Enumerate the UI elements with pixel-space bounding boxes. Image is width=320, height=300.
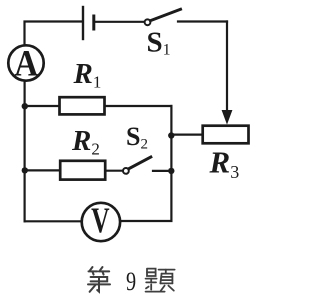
svg-text:S2: S2 [126, 122, 148, 153]
wire R2 to switch S2 [107, 170, 123, 172]
junction column wire down to bottom [121, 106, 171, 221]
wire top-left from corner to battery [25, 22, 83, 45]
battery long plate [82, 7, 84, 39]
node dot junction R3 [168, 132, 174, 138]
svg-text:R1: R1 [73, 58, 102, 92]
node dot left R2 branch [22, 167, 28, 173]
switch S1 pivot [145, 19, 151, 25]
wire node to resistor R2 [25, 169, 59, 171]
ammeter A [8, 45, 43, 80]
resistor R1 [60, 97, 105, 114]
wire bottom-left to voltmeter [25, 220, 82, 222]
svg-text:R2: R2 [71, 125, 100, 159]
wire S2 to junction [153, 170, 171, 172]
wire node to resistor R1 [25, 105, 59, 107]
switch S2 pivot [123, 168, 129, 174]
voltmeter V [82, 203, 120, 241]
rheostat R3 slider arrow [226, 22, 228, 113]
svg-text:V: V [91, 200, 110, 240]
caption character di (第) [88, 267, 110, 292]
switch S1 blade [151, 9, 181, 20]
svg-text:S1: S1 [147, 27, 171, 59]
node dot junction S2 branch [168, 168, 174, 174]
wire S1 to top-right corner [178, 20, 227, 22]
svg-text:R3: R3 [209, 144, 240, 182]
wire battery to switch S1 [95, 21, 144, 23]
wire R1 to junction column [106, 105, 172, 107]
switch S2 blade [129, 157, 151, 169]
battery short plate [92, 16, 95, 29]
wire junction to rheostat R3 [171, 134, 201, 136]
caption character ti (题) [146, 269, 175, 292]
wire left vertical below ammeter [24, 81, 26, 221]
node dot left R1 branch [22, 103, 28, 109]
rheostat R3 body [203, 126, 249, 144]
svg-text:9: 9 [126, 268, 136, 297]
resistor R2 [60, 161, 105, 180]
svg-text:A: A [14, 43, 38, 84]
